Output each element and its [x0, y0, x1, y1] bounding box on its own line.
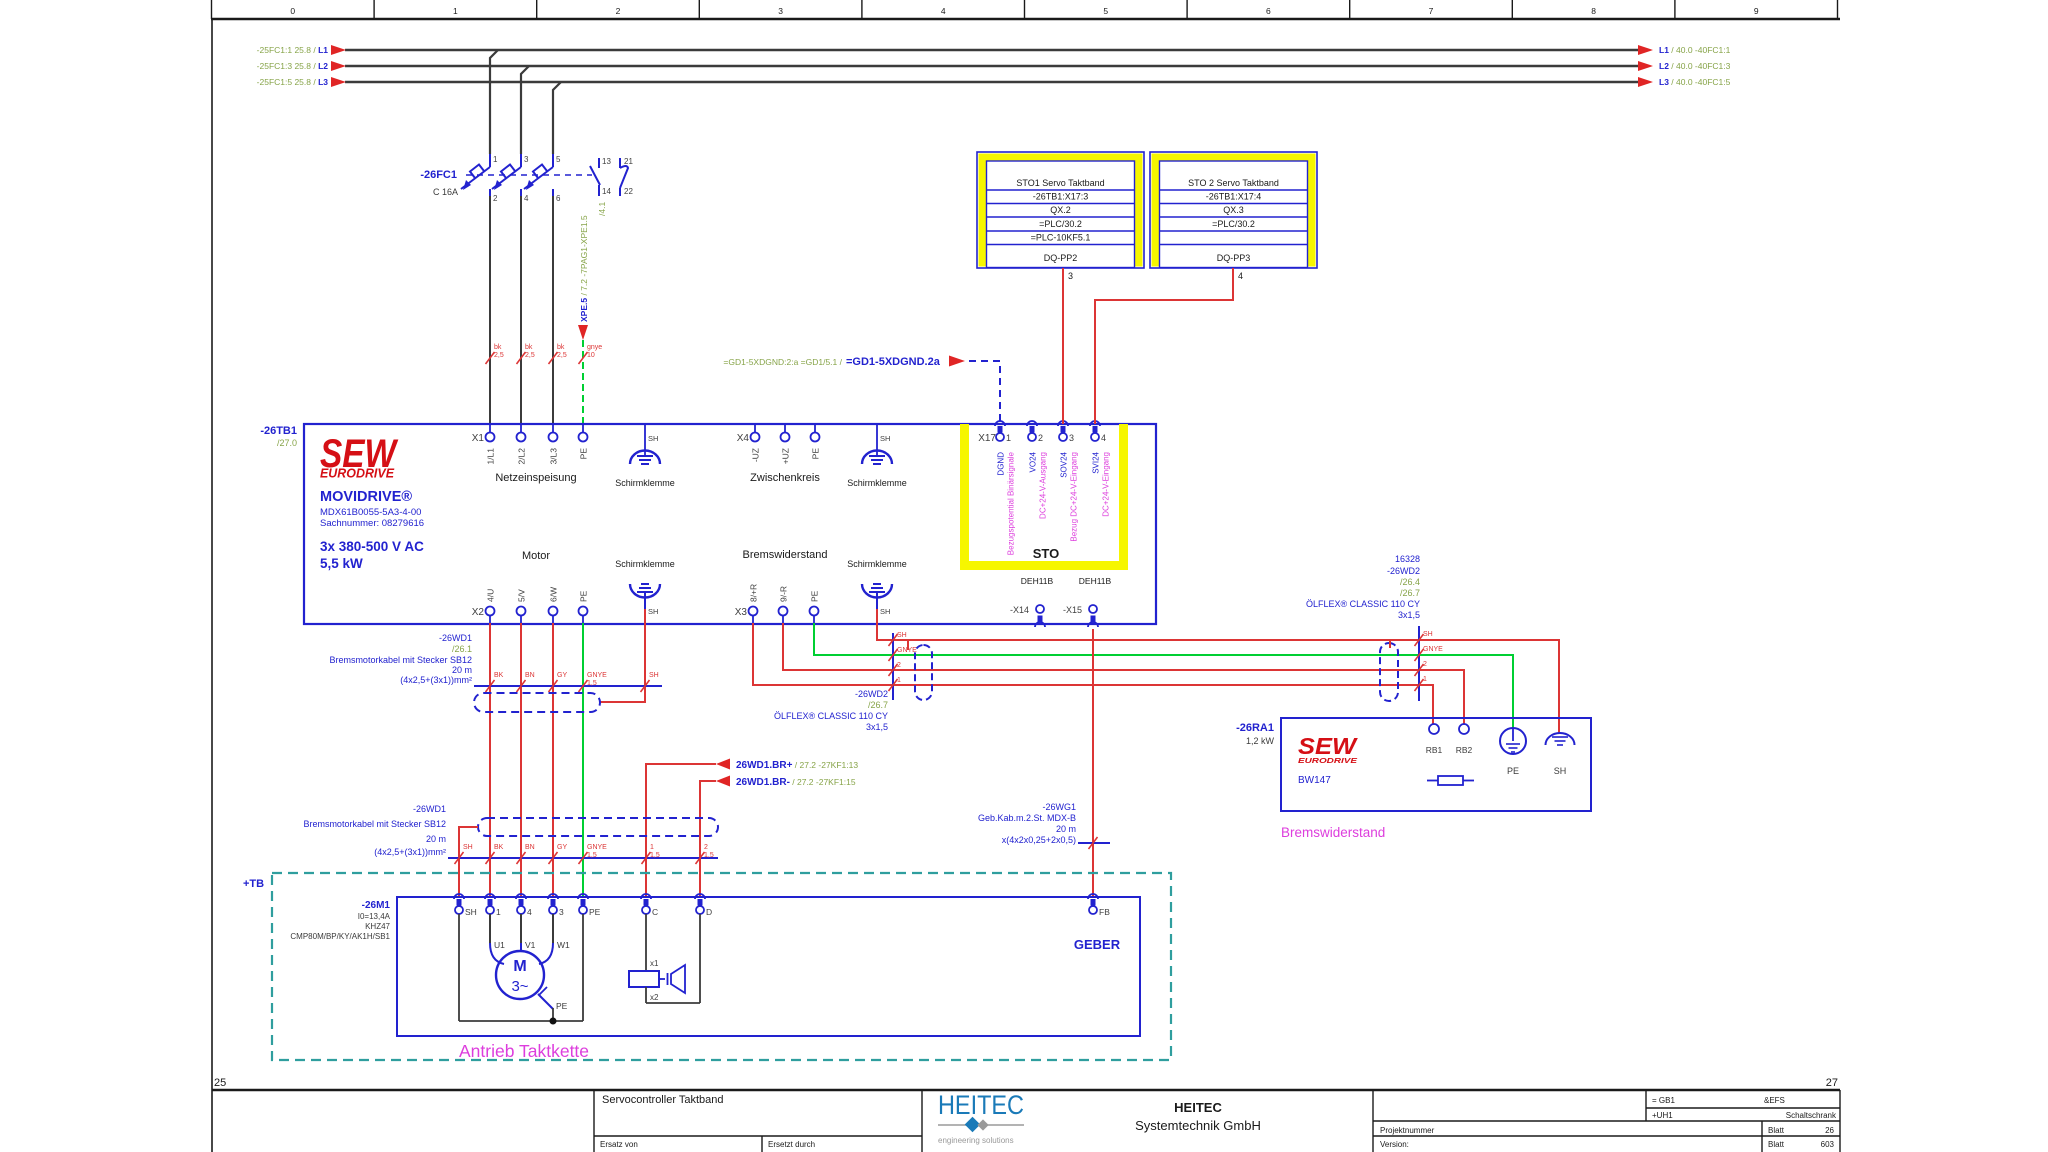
svg-text:-26RA1: -26RA1 — [1236, 722, 1274, 734]
dest arrow L3 — [1638, 77, 1653, 87]
PLC output box STO1 Servo Taktband — [977, 152, 1144, 268]
motor pin C — [641, 894, 651, 899]
svg-text:1,5: 1,5 — [587, 852, 597, 859]
svg-text:L1 / 40.0 -40FC1:1: L1 / 40.0 -40FC1:1 — [1659, 45, 1731, 55]
motor pin 1 — [485, 894, 495, 899]
wire screen to motor SH — [459, 827, 478, 897]
circuit breaker -26FC1 — [489, 154, 491, 167]
device box -26RA1 brake resistor — [1281, 718, 1591, 811]
svg-text:X1: X1 — [472, 433, 485, 444]
wire -X15 to GEBER FB — [1092, 629, 1094, 897]
wire drop L2 — [521, 66, 529, 154]
svg-text:1: 1 — [1006, 433, 1011, 443]
resistor symbol — [1438, 776, 1463, 785]
svg-text:3: 3 — [524, 155, 529, 164]
svg-text:1: 1 — [650, 844, 654, 851]
wire X2:5/V to motor 4 — [520, 623, 522, 897]
shield clamp 2 — [876, 424, 878, 456]
wire X3:9/-R to RB2 — [783, 623, 1464, 724]
svg-text:4: 4 — [941, 6, 946, 16]
svg-text:engineering solutions: engineering solutions — [938, 1136, 1014, 1145]
svg-text:W1: W1 — [557, 940, 570, 950]
terminal RB2 — [1459, 724, 1469, 734]
svg-text:BK: BK — [494, 672, 504, 679]
svg-text:STO 2 Servo Taktband: STO 2 Servo Taktband — [1188, 178, 1279, 188]
source arrow L1 — [331, 45, 346, 55]
svg-text:bk: bk — [525, 344, 533, 351]
svg-text:=GD1-5XDGND:2:a =GD1/5.1 /: =GD1-5XDGND:2:a =GD1/5.1 / — [723, 357, 842, 367]
svg-text:-26M1: -26M1 — [362, 900, 391, 911]
svg-text:26: 26 — [1825, 1126, 1834, 1135]
svg-text:25: 25 — [214, 1077, 226, 1089]
svg-text:(4x2,5+(3x1))mm²: (4x2,5+(3x1))mm² — [374, 847, 446, 857]
svg-text:-25FC1:5 25.8 / L3: -25FC1:5 25.8 / L3 — [257, 77, 329, 87]
motor pin PE — [578, 894, 588, 899]
svg-text:20 m: 20 m — [1056, 824, 1076, 834]
svg-text:SH: SH — [649, 672, 659, 679]
wire breaker to X1:2 — [520, 196, 522, 424]
wire gauge mark gnye 10 — [579, 352, 588, 364]
svg-text:4: 4 — [524, 194, 529, 203]
svg-text:2,5: 2,5 — [557, 352, 567, 359]
svg-text:X17: X17 — [978, 433, 996, 444]
wire breaker to X1:1 — [489, 196, 491, 424]
svg-text:PE: PE — [579, 590, 589, 602]
svg-text:DC+24-V-Ausgang: DC+24-V-Ausgang — [1039, 452, 1048, 519]
svg-text:ÖLFLEX® CLASSIC 110 CY: ÖLFLEX® CLASSIC 110 CY — [1306, 599, 1420, 609]
svg-text:DQ-PP2: DQ-PP2 — [1044, 253, 1078, 263]
svg-text:-26TB1: -26TB1 — [260, 425, 297, 437]
svg-text:PE: PE — [811, 448, 821, 460]
svg-text:27: 27 — [1826, 1077, 1838, 1089]
svg-text:BN: BN — [525, 672, 535, 679]
svg-text:20 m: 20 m — [426, 834, 446, 844]
svg-text:M: M — [513, 958, 526, 975]
svg-text:GNYE: GNYE — [1423, 646, 1443, 653]
svg-text:20 m: 20 m — [452, 665, 472, 675]
svg-text:HEITEC: HEITEC — [938, 1090, 1024, 1120]
wire X2:6/W to motor 3 — [552, 623, 554, 897]
svg-text:Systemtechnik GmbH: Systemtechnik GmbH — [1135, 1118, 1261, 1133]
svg-text:5: 5 — [556, 155, 561, 164]
svg-text:6: 6 — [1266, 6, 1271, 16]
STO yellow frame — [960, 424, 969, 570]
svg-text:Netzeinspeisung: Netzeinspeisung — [495, 472, 576, 484]
brake release indicator — [659, 978, 665, 980]
motor pin 4 — [516, 894, 526, 899]
svg-text:3: 3 — [559, 907, 564, 917]
svg-text:C 16A: C 16A — [433, 187, 458, 197]
svg-text:0: 0 — [290, 6, 295, 16]
svg-text:-26WG1: -26WG1 — [1042, 802, 1076, 812]
cable screen -26WD2 left — [915, 645, 932, 700]
wire drop L3 — [553, 82, 561, 154]
svg-text:Geb.Kab.m.2.St. MDX-B: Geb.Kab.m.2.St. MDX-B — [978, 813, 1076, 823]
svg-text:1,5: 1,5 — [704, 852, 714, 859]
svg-text:Bremswiderstand: Bremswiderstand — [743, 549, 828, 561]
svg-text:/26.4: /26.4 — [1400, 577, 1420, 587]
svg-text:Blatt: Blatt — [1768, 1140, 1785, 1149]
svg-text:Bremswiderstand: Bremswiderstand — [1281, 825, 1385, 840]
svg-text:MOVIDRIVE®: MOVIDRIVE® — [320, 489, 412, 505]
svg-text:PE: PE — [556, 1001, 568, 1011]
svg-text:1/L1: 1/L1 — [486, 448, 496, 465]
arrow PE down — [578, 325, 588, 340]
svg-text:+TB: +TB — [243, 878, 264, 890]
wire motor 3 to W1 — [552, 914, 554, 943]
svg-text:x(4x2x0,25+2x0,5): x(4x2x0,25+2x0,5) — [1002, 835, 1076, 845]
svg-text:=PLC/30.2: =PLC/30.2 — [1212, 219, 1255, 229]
svg-text:X4: X4 — [737, 433, 750, 444]
svg-text:FB: FB — [1099, 907, 1110, 917]
wire dashed to X17:1 — [969, 361, 1000, 424]
svg-text:4/U: 4/U — [486, 589, 496, 602]
svg-text:SVI24: SVI24 — [1092, 451, 1101, 473]
dest arrow L1 — [1638, 45, 1653, 55]
svg-text:1,5: 1,5 — [587, 680, 597, 687]
svg-text:-X15: -X15 — [1063, 605, 1082, 615]
svg-text:1,2 kW: 1,2 kW — [1246, 736, 1275, 746]
svg-text:3x1,5: 3x1,5 — [1398, 610, 1420, 620]
wire X2:PE to motor PE green — [582, 623, 584, 897]
svg-text:= GB1: = GB1 — [1652, 1096, 1675, 1105]
svg-text:U1: U1 — [494, 940, 505, 950]
svg-text:BK: BK — [494, 844, 504, 851]
svg-text:22: 22 — [624, 187, 633, 196]
svg-text:STO: STO — [1033, 546, 1060, 561]
page frame left border — [211, 19, 213, 1152]
svg-text:SH: SH — [1554, 766, 1567, 776]
motor M 3~ — [496, 951, 544, 999]
cable -26WD1 lower — [448, 857, 718, 859]
cable -26WD2 right — [1418, 626, 1420, 701]
svg-text:EURODRIVE: EURODRIVE — [320, 466, 394, 481]
svg-text:/4.1: /4.1 — [597, 202, 607, 216]
svg-text:X2: X2 — [472, 607, 485, 618]
svg-text:MDX61B0055-5A3-4-00: MDX61B0055-5A3-4-00 — [320, 507, 421, 518]
wire motor 1 to U1 — [489, 914, 491, 943]
svg-text:13: 13 — [602, 157, 611, 166]
svg-text:2,5: 2,5 — [494, 352, 504, 359]
svg-text:Sachnummer: 08279616: Sachnummer: 08279616 — [320, 518, 424, 529]
svg-text:=PLC-10KF5.1: =PLC-10KF5.1 — [1031, 233, 1091, 243]
motor PE lead — [538, 994, 553, 1009]
svg-text:GNYE: GNYE — [587, 844, 607, 851]
svg-text:XPE.5 / 7.2 -7PAG1-XPE1.5: XPE.5 / 7.2 -7PAG1-XPE1.5 — [579, 215, 589, 322]
svg-text:2: 2 — [1038, 433, 1043, 443]
PE symbol RA1 — [1500, 728, 1526, 754]
motor ground bus — [458, 914, 460, 1021]
svg-text:10: 10 — [587, 352, 595, 359]
svg-text:8: 8 — [1591, 6, 1596, 16]
svg-text:C: C — [652, 907, 658, 917]
svg-text:X3: X3 — [735, 607, 748, 618]
svg-text:SH: SH — [897, 632, 907, 639]
svg-text:3~: 3~ — [511, 978, 528, 995]
svg-text:L3 / 40.0 -40FC1:5: L3 / 40.0 -40FC1:5 — [1659, 77, 1731, 87]
svg-text:-X14: -X14 — [1010, 605, 1029, 615]
dest arrow L2 — [1638, 61, 1653, 71]
svg-text:EURODRIVE: EURODRIVE — [1298, 756, 1358, 765]
svg-text:SH: SH — [880, 607, 890, 616]
svg-text:-25FC1:3 25.8 / L2: -25FC1:3 25.8 / L2 — [257, 61, 329, 71]
wire L2 rail — [345, 65, 1638, 67]
svg-text:HEITEC: HEITEC — [1174, 1100, 1222, 1115]
svg-text:1: 1 — [453, 6, 458, 16]
aux contact 13 14 — [598, 158, 600, 168]
wire PE green dashed — [582, 340, 584, 424]
wire breaker to X1:3 — [552, 196, 554, 424]
svg-text:Bremsmotorkabel mit Stecker SB: Bremsmotorkabel mit Stecker SB12 — [329, 655, 472, 665]
wire X2:4/U to motor 1 — [489, 623, 491, 897]
svg-text:GNYE: GNYE — [587, 672, 607, 679]
svg-text:26WD1.BR- / 27.2 -27KF1:15: 26WD1.BR- / 27.2 -27KF1:15 — [736, 777, 856, 788]
shield clamp 4 — [873, 583, 881, 585]
svg-text:RB2: RB2 — [1456, 745, 1473, 755]
wire drop L1 — [490, 50, 498, 154]
svg-text:Ersetzt durch: Ersetzt durch — [768, 1140, 815, 1149]
svg-text:Bremsmotorkabel mit Stecker SB: Bremsmotorkabel mit Stecker SB12 — [303, 819, 446, 829]
motor pin D — [695, 894, 705, 899]
svg-text:D: D — [706, 907, 712, 917]
svg-text:Schirmklemme: Schirmklemme — [615, 478, 675, 488]
svg-text:Blatt: Blatt — [1768, 1126, 1785, 1135]
svg-text:2: 2 — [704, 844, 708, 851]
svg-text:SOV24: SOV24 — [1060, 451, 1069, 477]
svg-text:6: 6 — [556, 194, 561, 203]
brake coil Y1 — [645, 914, 647, 971]
svg-text:DEH11B: DEH11B — [1079, 576, 1112, 586]
svg-text:DQ-PP3: DQ-PP3 — [1217, 253, 1251, 263]
motor pin 3 — [548, 894, 558, 899]
svg-text:7: 7 — [1429, 6, 1434, 16]
wire X3:8/+R to RB1 — [753, 623, 1433, 724]
svg-text:3: 3 — [1069, 433, 1074, 443]
svg-text:SH: SH — [465, 907, 477, 917]
wire shield clamp 3 to cable screen — [600, 609, 645, 702]
svg-text:Projektnummer: Projektnummer — [1380, 1126, 1435, 1135]
svg-text:1: 1 — [493, 155, 498, 164]
signal arrow 26WD1.BR- — [700, 781, 716, 858]
svg-text:Motor: Motor — [522, 550, 550, 562]
svg-text:gnye: gnye — [587, 344, 602, 351]
svg-text:ÖLFLEX® CLASSIC 110 CY: ÖLFLEX® CLASSIC 110 CY — [774, 711, 888, 721]
cable -26WG1 — [1078, 842, 1110, 844]
svg-text:QX.3: QX.3 — [1223, 205, 1244, 215]
svg-text:21: 21 — [624, 157, 633, 166]
svg-text:-26WD1: -26WD1 — [439, 633, 472, 643]
svg-text:3x1,5: 3x1,5 — [866, 722, 888, 732]
svg-text:Bezug DC+24-V-Eingang: Bezug DC+24-V-Eingang — [1070, 452, 1079, 542]
svg-text:SH: SH — [648, 607, 658, 616]
svg-text:Zwischenkreis: Zwischenkreis — [750, 472, 820, 484]
svg-text:3/L3: 3/L3 — [549, 448, 559, 465]
svg-text:2: 2 — [1423, 661, 1427, 668]
svg-text:/27.0: /27.0 — [277, 438, 297, 448]
svg-text:-26FC1: -26FC1 — [420, 169, 457, 181]
source arrow L3 — [331, 77, 346, 87]
cable screen -26WD2 right — [1380, 643, 1398, 701]
wire DQ-PP3 to X17:4 — [1095, 268, 1233, 424]
wire L3 rail — [345, 81, 1638, 83]
svg-text:(4x2,5+(3x1))mm²: (4x2,5+(3x1))mm² — [400, 675, 472, 685]
svg-text:Bezugspotential Binärsignale: Bezugspotential Binärsignale — [1007, 451, 1016, 555]
wire DQ-PP2 to X17:3 — [1062, 268, 1064, 424]
svg-text:SH: SH — [648, 434, 658, 443]
svg-text:Schirmklemme: Schirmklemme — [847, 478, 907, 488]
svg-text:V1: V1 — [525, 940, 536, 950]
svg-text:-UZ: -UZ — [751, 448, 761, 462]
device box -26TB1 MOVIDRIVE — [304, 424, 1156, 624]
device box -26M1 — [397, 897, 1140, 1036]
svg-text:QX.2: QX.2 — [1050, 205, 1071, 215]
svg-text:1: 1 — [496, 907, 501, 917]
SH symbol RA1 — [1546, 733, 1575, 745]
wire motor C down — [645, 858, 647, 897]
svg-text:DC+24-V-Eingang: DC+24-V-Eingang — [1102, 452, 1111, 517]
svg-text:2: 2 — [493, 194, 498, 203]
svg-text:5/V: 5/V — [517, 589, 527, 602]
svg-text:I0=13,4A: I0=13,4A — [358, 912, 391, 921]
svg-text:9/-R: 9/-R — [779, 586, 789, 602]
svg-text:SH: SH — [880, 434, 890, 443]
top ruler line — [211, 18, 1840, 20]
svg-text:Ersatz von: Ersatz von — [600, 1140, 638, 1149]
svg-text:16328: 16328 — [1395, 554, 1420, 564]
shield clamp 3 — [641, 583, 649, 585]
svg-text:Antrieb Taktkette: Antrieb Taktkette — [459, 1041, 589, 1061]
svg-text:STO1 Servo Taktband: STO1 Servo Taktband — [1016, 178, 1104, 188]
svg-text:CMP80M/BP/KY/AK1H/SB1: CMP80M/BP/KY/AK1H/SB1 — [290, 932, 390, 941]
svg-text:KHZ47: KHZ47 — [365, 922, 390, 931]
svg-text:5: 5 — [1103, 6, 1108, 16]
svg-text:3: 3 — [1068, 271, 1073, 281]
svg-text:Schirmklemme: Schirmklemme — [847, 559, 907, 569]
svg-text:SH: SH — [463, 844, 473, 851]
svg-text:603: 603 — [1821, 1140, 1835, 1149]
svg-text:5,5 kW: 5,5 kW — [320, 556, 363, 571]
wire motor 4 to V1 — [520, 914, 522, 943]
svg-text:x2: x2 — [650, 993, 659, 1002]
svg-text:/26.7: /26.7 — [868, 700, 888, 710]
svg-text:GY: GY — [557, 844, 567, 851]
svg-text:DGND: DGND — [997, 452, 1006, 476]
motor pin SH — [454, 894, 464, 899]
svg-text:8/+R: 8/+R — [749, 584, 759, 602]
svg-text:-26TB1:X17:3: -26TB1:X17:3 — [1033, 192, 1089, 202]
title block horizontals — [594, 1135, 922, 1137]
ruler ticks — [211, 0, 213, 19]
svg-text:L2 / 40.0 -40FC1:3: L2 / 40.0 -40FC1:3 — [1659, 61, 1731, 71]
svg-text:BW147: BW147 — [1298, 775, 1331, 786]
svg-text:bk: bk — [557, 344, 565, 351]
wire L1 rail — [345, 49, 1638, 51]
svg-text:=PLC/30.2: =PLC/30.2 — [1039, 219, 1082, 229]
svg-text:Schaltschrank: Schaltschrank — [1786, 1111, 1837, 1120]
svg-text:/26.7: /26.7 — [1400, 588, 1420, 598]
svg-text:2: 2 — [897, 662, 901, 669]
svg-text:+UH1: +UH1 — [1652, 1111, 1673, 1120]
svg-text:PE: PE — [589, 907, 601, 917]
svg-text:SH: SH — [1423, 631, 1433, 638]
svg-text:2/L2: 2/L2 — [517, 448, 527, 465]
svg-text:3: 3 — [778, 6, 783, 16]
title block top border — [212, 1089, 1840, 1091]
aux contact 21 22 — [619, 158, 621, 168]
svg-text:-26TB1:X17:4: -26TB1:X17:4 — [1206, 192, 1262, 202]
PLC output box STO2 Servo Taktband — [1150, 152, 1317, 268]
cable -26WD1 upper — [474, 685, 662, 687]
svg-text:-26WD2: -26WD2 — [855, 689, 888, 699]
svg-text:DEH11B: DEH11B — [1021, 576, 1054, 586]
shield clamp 1 — [644, 424, 646, 456]
svg-text:-26WD1: -26WD1 — [413, 804, 446, 814]
wire motor D down — [699, 858, 701, 897]
svg-text:GEBER: GEBER — [1074, 937, 1121, 952]
svg-text:1,5: 1,5 — [650, 852, 660, 859]
svg-text:Version:: Version: — [1380, 1140, 1409, 1149]
svg-text:&EFS: &EFS — [1764, 1096, 1785, 1105]
cable screen -26WD1 lower — [478, 818, 718, 836]
cable screen -26WD1 upper — [474, 693, 600, 712]
svg-text:3x 380-500 V AC: 3x 380-500 V AC — [320, 539, 424, 554]
svg-text:VO24: VO24 — [1029, 451, 1038, 472]
svg-text:4: 4 — [527, 907, 532, 917]
svg-text:1: 1 — [897, 677, 901, 684]
svg-text:PE: PE — [1507, 766, 1519, 776]
svg-text:Schirmklemme: Schirmklemme — [615, 559, 675, 569]
wire gauge marks BK 2,5 — [486, 352, 495, 364]
svg-text:-26WD2: -26WD2 — [1387, 566, 1420, 576]
svg-text:1: 1 — [1423, 676, 1427, 683]
svg-text:/26.1: /26.1 — [452, 644, 472, 654]
svg-text:4: 4 — [1238, 271, 1243, 281]
title block verticals — [593, 1090, 595, 1152]
cable -26WD2 left — [892, 633, 894, 700]
svg-text:14: 14 — [602, 187, 611, 196]
svg-text:-25FC1:1 25.8 / L1: -25FC1:1 25.8 / L1 — [257, 45, 329, 55]
geber pin FB — [1088, 894, 1098, 899]
svg-text:=GD1-5XDGND.2a: =GD1-5XDGND.2a — [846, 356, 941, 368]
signal arrow 26WD1.BR+ — [646, 764, 716, 858]
terminal RB1 — [1429, 724, 1439, 734]
svg-text:Servocontroller Taktband: Servocontroller Taktband — [602, 1094, 723, 1106]
breaker mechanical link dashed — [466, 174, 592, 176]
svg-text:4: 4 — [1101, 433, 1106, 443]
svg-text:9: 9 — [1754, 6, 1759, 16]
wire X3:PE to RA1 PE green — [814, 623, 1513, 728]
svg-text:RB1: RB1 — [1426, 745, 1443, 755]
svg-text:bk: bk — [494, 344, 502, 351]
svg-text:x1: x1 — [650, 959, 659, 968]
svg-text:26WD1.BR+ / 27.2 -27KF1:13: 26WD1.BR+ / 27.2 -27KF1:13 — [736, 760, 858, 771]
source arrow L2 — [331, 61, 346, 71]
svg-text:6/W: 6/W — [549, 587, 559, 602]
svg-text:2,5: 2,5 — [525, 352, 535, 359]
svg-text:BN: BN — [525, 844, 535, 851]
svg-text:2: 2 — [616, 6, 621, 16]
wire shield clamp 4 to RA1 SH — [877, 609, 1559, 733]
svg-text:PE: PE — [810, 590, 820, 602]
svg-text:GY: GY — [557, 672, 567, 679]
enclosure +TB dashed — [272, 873, 1171, 1060]
svg-text:PE: PE — [579, 448, 589, 460]
svg-text:+UZ: +UZ — [781, 448, 791, 464]
